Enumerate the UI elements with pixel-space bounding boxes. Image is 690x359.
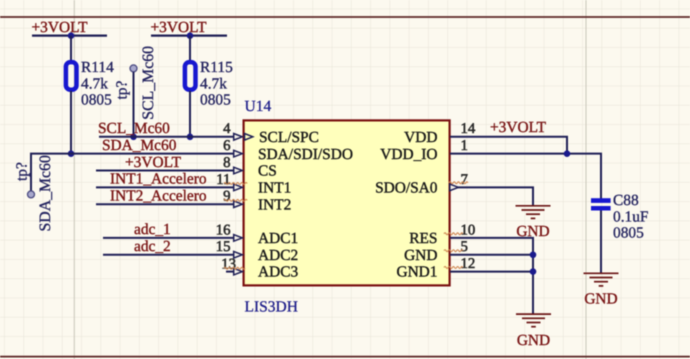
pin 9 INT2 xyxy=(223,189,291,214)
value labels R115 xyxy=(200,59,233,109)
pin 12 GND1 xyxy=(396,256,475,281)
wire power bar to R114 xyxy=(70,36,72,61)
wire pin 12 xyxy=(450,271,533,273)
svg-text:11: 11 xyxy=(216,172,230,188)
svg-text:SDA/SDI/SDO: SDA/SDI/SDO xyxy=(258,146,353,163)
junction on left power bar xyxy=(68,32,75,39)
svg-text:+3VOLT: +3VOLT xyxy=(151,19,208,36)
svg-text:INT1_Accelero: INT1_Accelero xyxy=(110,171,207,188)
svg-text:tp?: tp? xyxy=(114,81,131,100)
junction pin 5 xyxy=(530,251,537,258)
test point tp? (SCL) xyxy=(114,65,138,137)
wire power bar to R115 xyxy=(189,36,191,61)
svg-text:+3VOLT: +3VOLT xyxy=(32,19,89,36)
svg-text:SCL_Mc60: SCL_Mc60 xyxy=(140,46,157,120)
wire pin 7 to ground xyxy=(457,187,534,205)
compile-mark squiggle pin 5 xyxy=(444,250,463,252)
ground (C88) xyxy=(584,273,619,307)
compile-mark squiggle pin 13 xyxy=(224,267,245,269)
wire pin 14 to +3VOLT net xyxy=(450,137,567,154)
wire adc_1 to pin 16 xyxy=(103,237,235,239)
pin 1 VDD_IO xyxy=(380,138,468,163)
svg-text:adc_2: adc_2 xyxy=(134,238,171,255)
svg-text:SDA_Mc60: SDA_Mc60 xyxy=(102,137,177,154)
junction tp/SCL xyxy=(130,134,137,141)
svg-text:GND: GND xyxy=(404,247,437,264)
capacitor C88 xyxy=(591,198,611,210)
svg-text:SDO/SA0: SDO/SA0 xyxy=(375,179,438,196)
svg-text:6: 6 xyxy=(223,138,230,154)
svg-text:CS: CS xyxy=(258,163,277,180)
wire R115 to SCL net xyxy=(189,91,191,137)
test point tp? (SDA) xyxy=(14,162,35,198)
wire +3VOLT to pin 8 xyxy=(96,170,235,172)
pin 11 INT1 xyxy=(216,172,291,197)
svg-text:1: 1 xyxy=(461,138,468,154)
svg-text:LIS3DH: LIS3DH xyxy=(245,299,298,316)
svg-text:GND1: GND1 xyxy=(396,264,437,281)
svg-text:R114: R114 xyxy=(81,59,114,76)
wire pin 5 xyxy=(450,254,533,256)
svg-text:+3VOLT: +3VOLT xyxy=(125,154,182,171)
pin 4 SCL/SPC xyxy=(223,121,319,146)
svg-text:4.7k: 4.7k xyxy=(200,76,227,93)
pin 10 RES xyxy=(409,222,475,247)
junction VDD/VDD_IO xyxy=(564,150,571,157)
svg-text:GND: GND xyxy=(517,332,550,349)
compile-mark squiggle pin 11 xyxy=(224,183,247,185)
svg-text:GND: GND xyxy=(584,290,617,307)
svg-text:12: 12 xyxy=(461,256,476,272)
pin 5 GND xyxy=(404,239,468,264)
svg-text:8: 8 xyxy=(223,155,230,171)
pin 7 SDO/SA0 xyxy=(375,172,468,197)
power port +3VOLT (left, over R114) xyxy=(32,19,108,36)
junction on right power bar xyxy=(187,32,194,39)
svg-text:0805: 0805 xyxy=(613,225,644,242)
svg-text:0805: 0805 xyxy=(200,92,231,109)
svg-text:VDD_IO: VDD_IO xyxy=(380,146,437,163)
svg-text:INT2_Accelero: INT2_Accelero xyxy=(110,188,207,205)
junction pin 12 xyxy=(530,268,537,275)
wire INT1_Accelero to pin 11 xyxy=(96,186,235,188)
value labels C88 xyxy=(613,192,649,242)
svg-text:ADC3: ADC3 xyxy=(258,264,298,281)
svg-text:R115: R115 xyxy=(200,59,233,76)
svg-text:16: 16 xyxy=(216,222,231,238)
wire R114 to SDA net xyxy=(70,91,72,154)
junction R115/SCL xyxy=(187,134,194,141)
svg-text:9: 9 xyxy=(223,189,230,205)
svg-text:0.1uF: 0.1uF xyxy=(613,208,649,225)
compile-mark squiggle pin 9 xyxy=(224,199,247,201)
pin 8 CS xyxy=(223,155,277,180)
wire SDA_Mc60 to pin 6 xyxy=(31,154,235,191)
wire C88 to ground xyxy=(600,211,602,274)
svg-text:INT1: INT1 xyxy=(258,179,291,196)
pin 16 ADC1 xyxy=(216,222,299,247)
svg-text:4: 4 xyxy=(223,121,231,137)
wire pin 1 to C88 xyxy=(450,154,601,199)
ground (pins 10/5/12) xyxy=(516,314,551,349)
svg-text:C88: C88 xyxy=(613,192,639,209)
svg-text:SCL/SPC: SCL/SPC xyxy=(259,129,319,146)
svg-text:7: 7 xyxy=(461,172,468,188)
wire stub pin 13 xyxy=(226,271,235,273)
svg-text:ADC1: ADC1 xyxy=(258,230,298,247)
svg-text:ADC2: ADC2 xyxy=(258,247,298,264)
svg-text:0805: 0805 xyxy=(81,92,112,109)
pin 6 SDA/SDI/SDO xyxy=(223,138,353,163)
wire adc_2 to pin 15 xyxy=(103,254,235,256)
power port +3VOLT (over R115) xyxy=(151,19,228,36)
ground (pin 7) xyxy=(516,206,551,240)
compile-mark squiggle pin 7 xyxy=(449,182,468,184)
svg-text:SCL_Mc60: SCL_Mc60 xyxy=(98,120,170,137)
svg-text:15: 15 xyxy=(216,239,231,255)
svg-text:13: 13 xyxy=(221,256,236,272)
svg-text:14: 14 xyxy=(461,121,476,137)
svg-text:U14: U14 xyxy=(245,98,272,115)
value labels R114 xyxy=(81,59,114,109)
svg-text:+3VOLT: +3VOLT xyxy=(490,119,547,136)
wire SCL_Mc60 to pin 4 xyxy=(99,136,235,138)
svg-text:tp?: tp? xyxy=(14,162,31,181)
svg-text:RES: RES xyxy=(409,230,437,247)
compile-mark squiggle pin 10 xyxy=(444,233,463,235)
svg-text:VDD: VDD xyxy=(404,129,437,146)
svg-text:SDA_Mc60: SDA_Mc60 xyxy=(37,155,54,231)
pin 13 ADC3 xyxy=(221,256,298,280)
resistor R114 xyxy=(66,62,77,90)
svg-text:5: 5 xyxy=(461,239,468,255)
pin 15 ADC2 xyxy=(216,239,299,264)
wire INT2_Accelero to pin 9 xyxy=(96,203,235,205)
resistor R115 xyxy=(185,62,196,90)
svg-text:10: 10 xyxy=(461,222,476,238)
svg-text:4.7k: 4.7k xyxy=(81,76,108,93)
wire pin 10 to ground xyxy=(450,238,533,314)
op-amp U14 chip body LIS3DH xyxy=(244,120,450,285)
svg-text:INT2: INT2 xyxy=(258,196,291,213)
compile-mark squiggle pin 12 xyxy=(444,267,463,269)
junction R114/SDA xyxy=(68,150,75,157)
pin 14 VDD xyxy=(404,121,476,146)
svg-text:adc_1: adc_1 xyxy=(134,221,171,238)
